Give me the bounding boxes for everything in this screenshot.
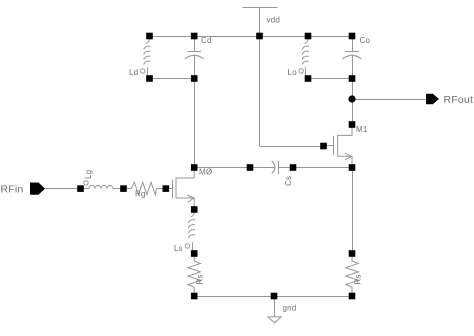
svg-text:RFin: RFin [1,184,24,196]
svg-text:vdd: vdd [267,16,281,25]
svg-text:Lo: Lo [288,68,298,77]
svg-text:M1: M1 [356,125,368,134]
svg-text:Cs: Cs [284,176,293,186]
svg-text:RFout: RFout [444,94,474,106]
svg-text:Rs: Rs [196,274,205,284]
svg-text:Lg: Lg [84,170,93,179]
svg-text:Co: Co [360,36,371,45]
svg-text:Rs: Rs [354,274,363,284]
svg-text:Ls: Ls [174,244,183,253]
svg-text:MØ: MØ [199,168,212,177]
svg-text:Cd: Cd [201,36,212,45]
svg-text:Rg: Rg [135,190,146,199]
svg-text:Ld: Ld [129,68,138,77]
svg-text:gnd: gnd [283,304,297,313]
